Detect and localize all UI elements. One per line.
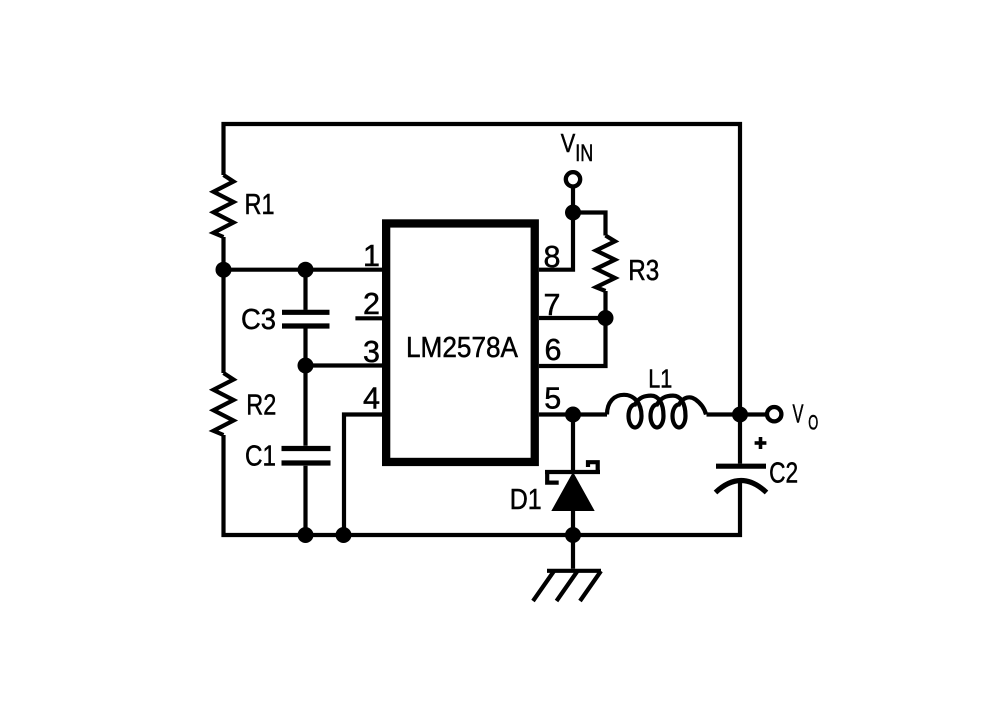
- svg-text:L1: L1: [648, 364, 672, 394]
- svg-text:C1: C1: [245, 441, 276, 473]
- svg-text:V: V: [793, 399, 804, 429]
- svg-text:C2: C2: [769, 458, 798, 490]
- svg-text:V: V: [561, 128, 576, 158]
- svg-text:1: 1: [363, 239, 380, 273]
- svg-text:8: 8: [544, 240, 561, 274]
- svg-text:2: 2: [363, 287, 380, 321]
- svg-text:7: 7: [544, 288, 561, 322]
- svg-text:D1: D1: [510, 484, 542, 516]
- svg-text:IN: IN: [575, 140, 593, 167]
- svg-text:R3: R3: [628, 255, 659, 287]
- svg-text:5: 5: [544, 382, 561, 416]
- svg-text:C3: C3: [241, 304, 276, 336]
- svg-text:O: O: [808, 411, 818, 434]
- svg-text:LM2578A: LM2578A: [406, 332, 519, 364]
- svg-text:R2: R2: [246, 390, 276, 422]
- svg-text:6: 6: [545, 333, 562, 367]
- svg-text:R1: R1: [245, 189, 275, 221]
- svg-text:4: 4: [363, 382, 380, 416]
- svg-text:3: 3: [363, 335, 380, 369]
